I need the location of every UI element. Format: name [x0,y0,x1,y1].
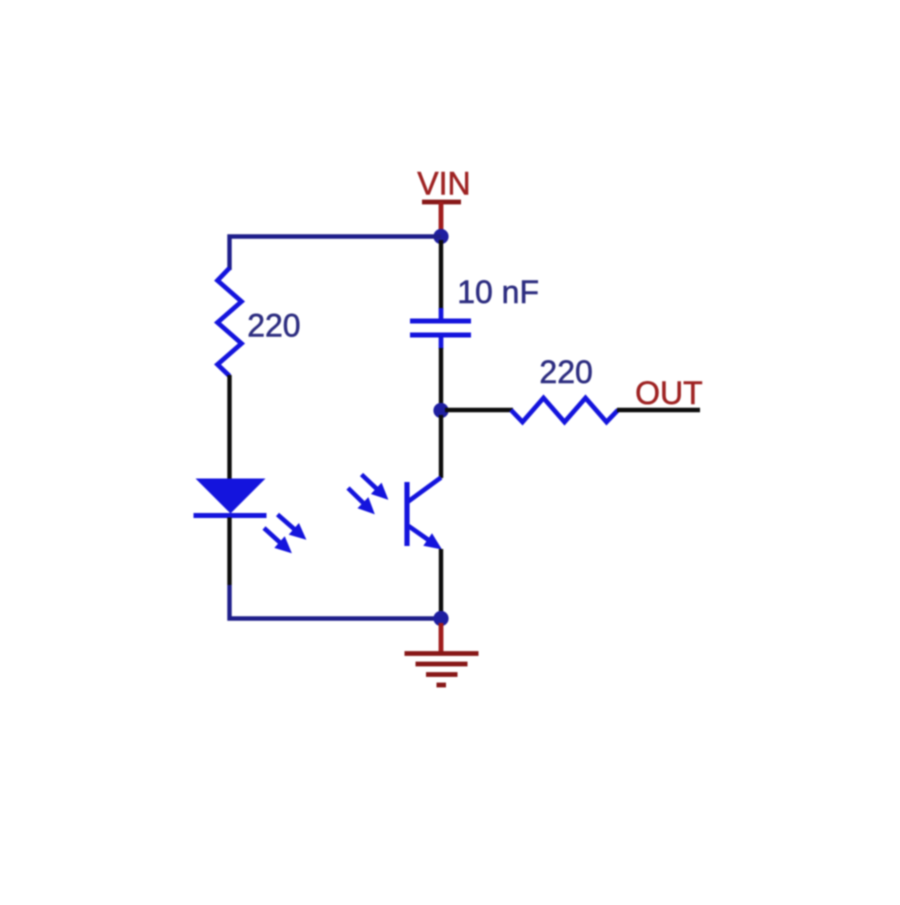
wire node B to R2 [445,408,513,412]
wire R2 to OUT [617,408,700,412]
capacitor C1 bottom plate [410,333,471,338]
wire bottom-left (navy) [230,585,442,619]
ground bar 1 [405,651,479,656]
ground bar 4 [437,683,447,688]
transistor Q1 emitter lead [409,526,430,541]
VIN power bar [422,200,461,205]
photo arrow 2 (incident light) [348,488,374,514]
capacitor C1 top plate [410,319,471,324]
capacitor C1 top lead [439,308,444,321]
wire ground stub [439,623,444,653]
node A (VIN junction) [433,229,448,244]
svg-text:VIN: VIN [417,166,470,202]
LED D1 cathode bar [194,513,267,518]
wire R1 to LED anode [227,375,231,479]
LED D1 triangle [196,479,266,514]
resistor R1 220 (left) [218,268,242,376]
svg-text:OUT: OUT [635,375,703,411]
photo arrow 1 (incident light) [362,475,388,500]
node B (output junction) [433,403,448,418]
wire LED cathode down [227,518,231,586]
transistor Q1 collector lead [408,478,442,503]
capacitor C1 bottom lead [439,335,444,349]
node C (ground junction) [433,611,448,626]
transistor Q1 emitter arrowhead [423,533,442,549]
wire node A to capacitor [439,240,443,309]
wire top horizontal [230,237,442,271]
wire Q1 emitter down [439,549,443,614]
wire capacitor to node B [439,348,443,406]
svg-text:220: 220 [247,308,300,344]
svg-text:220: 220 [539,354,592,390]
wire VIN stub [439,202,444,233]
LED emission arrow 2 [264,528,291,553]
LED emission arrow 1 [278,515,306,540]
ground bar 2 [416,662,468,667]
ground bar 3 [426,672,458,677]
wire node B to Q1 collector [439,415,443,478]
resistor R2 220 (output) [511,398,618,422]
transistor Q1 base bar [404,482,409,546]
svg-text:10 nF: 10 nF [457,274,539,310]
